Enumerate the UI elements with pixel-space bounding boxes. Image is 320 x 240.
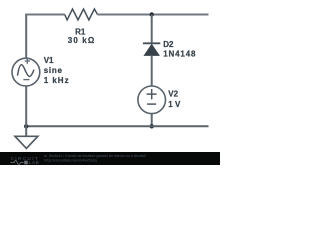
node junction dot bottom right	[150, 124, 154, 128]
wire: V1 bottom down to bottom rail	[25, 86, 27, 126]
voltage source V1 circle	[12, 58, 40, 86]
CircuitLab logo LAB box	[24, 161, 28, 165]
V1 minus sign	[23, 79, 29, 81]
ground symbol triangle	[15, 136, 38, 148]
wire: V2 bottom to bottom rail	[151, 114, 153, 127]
wire: top rail from R1 to right end	[98, 13, 209, 15]
diode D2 cathode bar	[143, 42, 160, 44]
svg-text:D2: D2	[163, 40, 174, 49]
voltage source V2 circle	[138, 86, 166, 114]
V1 sine glyph	[18, 65, 35, 77]
wire: diode anode down to V2 top	[151, 56, 153, 87]
wire: V1 top up and right to R1	[25, 14, 27, 59]
node junction dot bottom left	[24, 124, 28, 128]
V2 minus sign	[147, 103, 156, 105]
svg-text:sine: sine	[44, 66, 63, 75]
node junction dot top	[150, 12, 154, 16]
watermark bar	[0, 152, 220, 165]
diode D2 triangle anode pointing up	[144, 44, 159, 55]
wire: top node down to diode cathode	[151, 15, 153, 44]
resistor R1	[65, 9, 98, 20]
wire: top-left horizontal to R1	[25, 13, 64, 15]
svg-text:1 kHz: 1 kHz	[44, 76, 70, 85]
V2 plus sign	[147, 89, 157, 99]
wire: ground stem	[25, 126, 27, 136]
svg-text:1 V: 1 V	[168, 100, 181, 109]
svg-text:V1: V1	[44, 56, 54, 65]
svg-text:30 kΩ: 30 kΩ	[68, 36, 96, 45]
wire: bottom rail	[26, 125, 208, 127]
V1 plus sign	[25, 58, 30, 64]
svg-text:http://circuitlab.com/c/4vx52d: http://circuitlab.com/c/4vx52dq	[44, 158, 97, 162]
svg-text:V2: V2	[168, 90, 178, 99]
svg-text:1N4148: 1N4148	[163, 50, 196, 59]
CircuitLab logo waveform	[11, 161, 24, 165]
svg-text:LAB: LAB	[29, 160, 40, 165]
